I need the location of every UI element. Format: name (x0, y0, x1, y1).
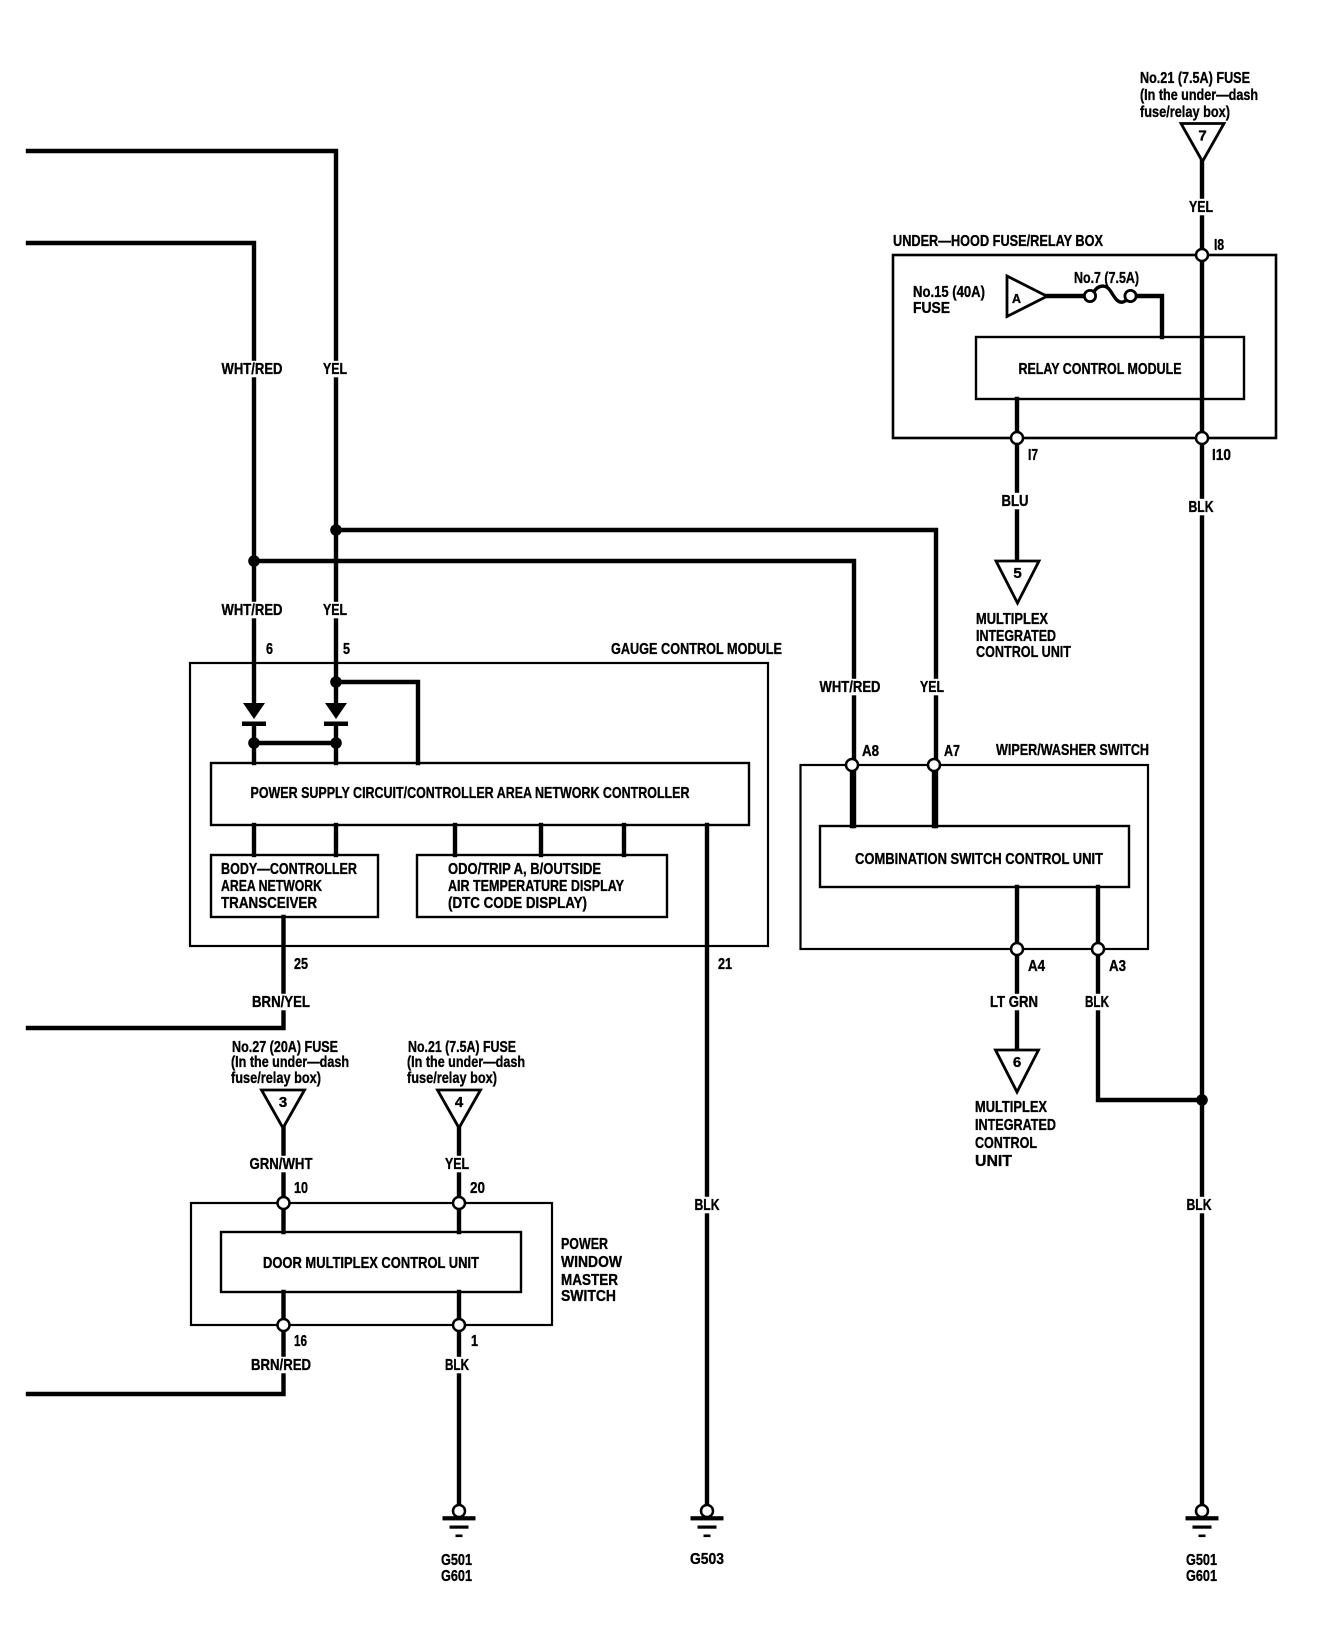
wire YEL fuse 4 to door unit pin 20 (457, 1128, 461, 1232)
svg-text:10: 10 (294, 1180, 308, 1197)
svg-text:CONTROL: CONTROL (975, 1135, 1037, 1152)
svg-text:UNDER—HOOD FUSE/RELAY BOX: UNDER—HOOD FUSE/RELAY BOX (893, 233, 1103, 250)
svg-text:fuse/relay box): fuse/relay box) (407, 1070, 497, 1087)
under-hood fuse/relay box outline (893, 255, 1276, 438)
fuse connector 3 (No.27 20A) (262, 1090, 305, 1128)
svg-text:1: 1 (471, 1333, 478, 1350)
svg-text:POWER SUPPLY CIRCUIT/CONTROLLE: POWER SUPPLY CIRCUIT/CONTROLLER AREA NET… (251, 785, 690, 802)
power window master switch box outline (191, 1203, 552, 1325)
svg-text:6: 6 (266, 641, 273, 658)
fuse connector 7 (No.21 7.5A) (1181, 124, 1224, 162)
svg-text:TRANSCEIVER: TRANSCEIVER (221, 895, 317, 912)
svg-text:I7: I7 (1028, 447, 1038, 464)
wire power supply to odo display 1 (453, 825, 457, 855)
wire WHT/RED from top-left to gauge pin 6 (28, 243, 254, 703)
svg-text:YEL: YEL (920, 679, 944, 696)
wire YEL branch to wiper A7 (336, 530, 936, 826)
label BLK at G503 wire (692, 1197, 722, 1214)
fuse No.7 (7.5A) element (1084, 286, 1136, 302)
label BRN/RED (249, 1357, 314, 1374)
svg-text:WHT/RED: WHT/RED (222, 602, 283, 619)
pin I10 (1196, 432, 1208, 444)
svg-text:MULTIPLEX: MULTIPLEX (976, 611, 1048, 628)
ground G501/G601 right (1186, 1505, 1219, 1537)
gauge control module box outline (190, 663, 768, 946)
wire diode D1 cathode to power supply box (252, 726, 256, 763)
svg-text:(In the under—dash: (In the under—dash (1140, 87, 1258, 104)
relay control module box (976, 337, 1244, 399)
label WHT/RED lower (219, 602, 285, 619)
svg-text:YEL: YEL (445, 1156, 469, 1173)
label BLU (999, 493, 1031, 510)
pin A4 (1011, 943, 1023, 955)
svg-text:CONTROL UNIT: CONTROL UNIT (976, 644, 1071, 661)
svg-text:BLK: BLK (1189, 499, 1214, 516)
svg-text:SWITCH: SWITCH (561, 1288, 616, 1305)
svg-text:G501: G501 (1186, 1552, 1217, 1569)
wire BRN/YEL gauge pin 25 to left edge (28, 917, 284, 1028)
label YEL at fuse 4 (443, 1156, 472, 1173)
svg-text:21: 21 (718, 956, 732, 973)
svg-text:(In the under—dash: (In the under—dash (231, 1054, 349, 1071)
svg-text:GAUGE CONTROL MODULE: GAUGE CONTROL MODULE (611, 641, 782, 658)
body-controller area network transceiver box (211, 855, 378, 917)
svg-text:WHT/RED: WHT/RED (820, 679, 881, 696)
wire BLK door pin 1 to ground G501 (457, 1292, 461, 1505)
svg-text:ODO/TRIP A, B/OUTSIDE: ODO/TRIP A, B/OUTSIDE (448, 861, 601, 878)
svg-text:G601: G601 (1186, 1568, 1217, 1585)
wire YEL branch inside gauge to power supply (336, 682, 418, 763)
wire LT GRN A4 to connector 6 (1015, 887, 1019, 1050)
combination switch control unit box (820, 826, 1129, 887)
wire BLU pin I7 to connector 5 (1015, 438, 1019, 561)
svg-text:FUSE: FUSE (913, 300, 950, 317)
svg-text:WINDOW: WINDOW (561, 1254, 623, 1271)
pin A8 (846, 759, 858, 771)
svg-text:A8: A8 (862, 743, 879, 760)
svg-text:BODY—CONTROLLER: BODY—CONTROLLER (221, 861, 357, 878)
connector 5 to multiplex unit (996, 561, 1039, 603)
svg-text:fuse/relay box): fuse/relay box) (231, 1070, 321, 1087)
pin 16 (278, 1319, 290, 1331)
wire fuse A to fuse No.7 (1047, 294, 1085, 298)
svg-text:(In the under—dash: (In the under—dash (407, 1054, 525, 1071)
svg-text:G501: G501 (441, 1552, 472, 1569)
svg-text:WIPER/WASHER SWITCH: WIPER/WASHER SWITCH (996, 742, 1149, 759)
svg-text:BLK: BLK (695, 1197, 720, 1214)
pin 1 (453, 1319, 465, 1331)
wire YEL from top-left to gauge pin 5 (28, 151, 336, 703)
diode D2 (gauge pin 5) (324, 703, 348, 726)
wire A7 pin into combination switch box (932, 765, 936, 826)
svg-text:A: A (1012, 291, 1022, 306)
pin A7 (928, 759, 940, 771)
svg-text:20: 20 (470, 1180, 485, 1197)
svg-text:I10: I10 (1212, 447, 1231, 464)
label WHT/RED right (817, 679, 883, 696)
wire relay module to pin I7 (1015, 399, 1019, 438)
wire power supply to odo display 2 (539, 825, 543, 855)
svg-text:(DTC CODE DISPLAY): (DTC CODE DISPLAY) (448, 895, 587, 912)
node YEL branch junction (330, 524, 342, 536)
svg-text:UNIT: UNIT (975, 1153, 1012, 1170)
label BLK at A3 (1083, 994, 1112, 1011)
ground G503 (691, 1505, 724, 1537)
svg-text:MULTIPLEX: MULTIPLEX (975, 1099, 1047, 1116)
svg-text:INTEGRATED: INTEGRATED (975, 1117, 1056, 1134)
svg-text:INTEGRATED: INTEGRATED (976, 628, 1056, 645)
label BLK at door pin 1 (443, 1357, 472, 1374)
svg-text:G503: G503 (690, 1551, 724, 1568)
wire fuse No.7 to relay control module (1135, 296, 1163, 337)
wire YEL/BLK main right vertical fuse 7 to ground (1200, 160, 1204, 1505)
label YEL at fuse 7 (1187, 199, 1216, 216)
svg-text:A4: A4 (1028, 958, 1045, 975)
door multiplex control unit box (221, 1232, 521, 1292)
svg-text:4: 4 (455, 1094, 464, 1111)
svg-text:BLK: BLK (445, 1357, 469, 1374)
svg-text:G601: G601 (441, 1568, 472, 1585)
svg-text:A3: A3 (1109, 958, 1126, 975)
wire power supply to odo display 3 (622, 825, 626, 855)
svg-text:YEL: YEL (323, 602, 347, 619)
label BLK right top (1186, 499, 1216, 516)
svg-text:BLK: BLK (1085, 994, 1109, 1011)
svg-text:6: 6 (1013, 1054, 1021, 1071)
wire BLK gauge pin 21 to ground G503 (705, 825, 709, 1505)
svg-text:3: 3 (279, 1094, 287, 1111)
node BLK join on right vertical (1196, 1094, 1208, 1106)
label YEL upper (321, 361, 350, 378)
svg-text:BLU: BLU (1002, 493, 1029, 510)
svg-text:No.15 (40A): No.15 (40A) (913, 284, 985, 301)
wire diode D2 cathode to power supply box (334, 726, 338, 763)
svg-text:BRN/RED: BRN/RED (251, 1357, 311, 1374)
svg-text:7: 7 (1198, 128, 1206, 145)
svg-text:No.7 (7.5A): No.7 (7.5A) (1074, 270, 1139, 287)
wire power supply to body transceiver right (334, 825, 338, 855)
node diode D2 output (330, 737, 342, 749)
svg-text:POWER: POWER (561, 1236, 608, 1253)
label YEL lower (321, 602, 350, 619)
svg-text:I8: I8 (1214, 237, 1224, 254)
svg-text:A7: A7 (944, 743, 960, 760)
svg-text:MASTER: MASTER (561, 1272, 618, 1289)
svg-text:GRN/WHT: GRN/WHT (250, 1156, 313, 1173)
diode D1 (gauge pin 6) (242, 703, 266, 726)
label YEL right (918, 679, 947, 696)
pin A3 (1092, 943, 1104, 955)
svg-text:YEL: YEL (323, 361, 347, 378)
svg-text:BRN/YEL: BRN/YEL (252, 994, 310, 1011)
wire power supply to body transceiver left (252, 825, 256, 855)
svg-text:5: 5 (1013, 565, 1021, 582)
pin 20 (453, 1197, 465, 1209)
node WHT/RED branch junction (248, 555, 260, 567)
label BRN/YEL (250, 994, 313, 1011)
svg-text:WHT/RED: WHT/RED (222, 361, 283, 378)
wire BRN/RED door pin 16 to left edge (28, 1292, 284, 1394)
pin I7 (1011, 432, 1023, 444)
wire GRN/WHT fuse 3 to door unit pin 10 (281, 1128, 285, 1232)
node YEL junction inside gauge box (330, 676, 342, 688)
label GRN/WHT (247, 1156, 315, 1173)
odo/trip display box (417, 855, 667, 917)
svg-text:DOOR MULTIPLEX CONTROL UNIT: DOOR MULTIPLEX CONTROL UNIT (263, 1255, 479, 1272)
power supply circuit box (211, 763, 749, 825)
svg-text:16: 16 (294, 1333, 307, 1350)
fuse connector 4 (No.21 7.5A) (438, 1090, 481, 1128)
pin I8 (1196, 249, 1208, 261)
ground G501/G601 left (443, 1505, 476, 1537)
wiper/washer switch box outline (801, 765, 1149, 949)
label BLK right lower (1184, 1197, 1214, 1214)
connector 6 to multiplex unit (996, 1050, 1039, 1092)
pin 10 (278, 1197, 290, 1209)
label LT GRN (988, 994, 1041, 1011)
svg-text:RELAY CONTROL MODULE: RELAY CONTROL MODULE (1019, 361, 1182, 378)
wire WHT/RED branch to wiper A8 (254, 561, 854, 826)
svg-text:BLK: BLK (1187, 1197, 1212, 1214)
wire A8 pin into combination switch box (850, 765, 854, 826)
svg-text:5: 5 (343, 641, 350, 658)
label WHT/RED upper (219, 361, 285, 378)
svg-text:LT GRN: LT GRN (990, 994, 1038, 1011)
svg-text:fuse/relay box): fuse/relay box) (1140, 104, 1230, 121)
svg-text:25: 25 (294, 956, 308, 973)
svg-text:YEL: YEL (1189, 199, 1213, 216)
svg-text:AIR TEMPERATURE DISPLAY: AIR TEMPERATURE DISPLAY (448, 878, 624, 895)
wire BLK A3 to right vertical (1098, 887, 1202, 1100)
svg-text:AREA NETWORK: AREA NETWORK (221, 878, 322, 895)
fuse A (No.15 40A) right-pointing triangle (1007, 276, 1047, 317)
node diode D1 output (248, 737, 260, 749)
svg-text:No.21 (7.5A) FUSE: No.21 (7.5A) FUSE (1140, 70, 1250, 87)
wire joining diode outputs (254, 741, 336, 745)
svg-text:COMBINATION SWITCH CONTROL UNI: COMBINATION SWITCH CONTROL UNIT (855, 851, 1103, 868)
